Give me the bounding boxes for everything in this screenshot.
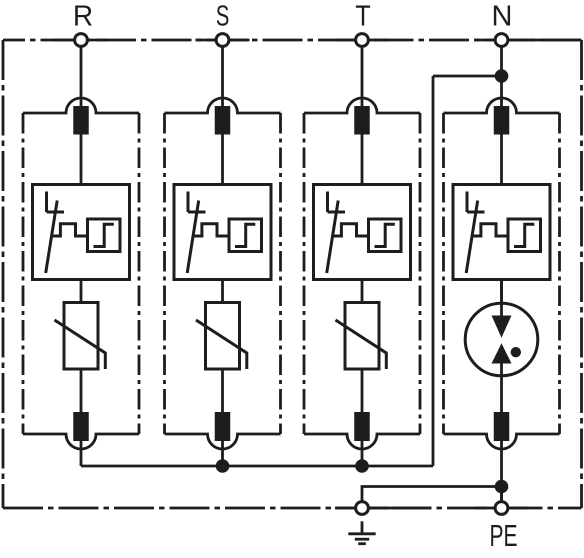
disconnection device with status indicator, leg T	[314, 185, 411, 280]
disconnection device with status indicator, leg S	[174, 185, 271, 280]
wire: lower disconnector down, leg N	[500, 441, 503, 501]
varistor, leg S	[196, 303, 247, 370]
enclosure border bottom (dash-dot)	[3, 507, 582, 510]
thermal disconnector (lower) leg T	[354, 412, 370, 441]
terminal PE (circle on bottom border)	[495, 502, 508, 515]
wire: bottom border solid segment at earth terminal	[335, 507, 389, 510]
disconnection device with status indicator, leg N	[453, 185, 550, 280]
svg-text:PE: PE	[489, 518, 517, 553]
thermal disconnector (upper) leg N	[494, 106, 510, 135]
wire: terminal R down to disconnector	[80, 40, 83, 108]
wire: bottom bus joining R, S, T varistor legs	[81, 465, 433, 468]
protection module boundary R (dash-dot box with plug arches)	[23, 98, 139, 449]
wire: lower disconnector down, leg S	[221, 441, 224, 466]
terminal N (circle on enclosure border)	[495, 34, 508, 47]
node: junction T on bus	[355, 459, 369, 473]
wire: top border solid segment at terminal T	[335, 39, 389, 42]
thermal disconnector (upper) leg S	[215, 106, 231, 135]
svg-text:N: N	[492, 0, 513, 32]
wire: arrester element to lower disconnector, leg R	[80, 369, 83, 414]
varistor, leg R	[55, 303, 106, 370]
protection module boundary T (dash-dot box with plug arches)	[304, 98, 420, 449]
thermal disconnector (upper) leg T	[354, 106, 370, 135]
wire: lower disconnector down, leg R	[80, 441, 83, 466]
wire: indicator box to arrester element, leg S	[221, 280, 224, 303]
svg-text:S: S	[216, 0, 229, 32]
terminal earth (circle on bottom border)	[356, 502, 369, 515]
wire: indicator box to arrester element, leg R	[80, 280, 83, 303]
wire: indicator box to arrester element, leg T	[361, 280, 364, 303]
thermal disconnector (lower) leg N	[494, 412, 510, 441]
wire: disconnector to indicator box, leg N	[500, 135, 503, 185]
terminal R (circle on enclosure border)	[75, 34, 88, 47]
varistor, leg T	[336, 303, 387, 370]
wire: arrester element to lower disconnector, leg T	[361, 369, 364, 414]
node: junction above PE terminal	[495, 480, 509, 494]
wire: bottom border solid segment between earth and PE terminals	[369, 507, 431, 510]
node: junction on N conductor	[495, 69, 509, 83]
wire: top border solid segment at terminal N	[475, 39, 529, 42]
wire: terminal T down to disconnector	[361, 40, 364, 108]
spark gap N-PE (circle with opposing arrows)	[465, 280, 538, 376]
wire: junction down to PE terminal	[500, 487, 503, 502]
terminal S (circle on enclosure border)	[216, 34, 229, 47]
wire: terminal N down to disconnector	[500, 40, 503, 108]
wire: top border solid segment N to right corner	[520, 39, 581, 42]
wire: disconnector to indicator box, leg S	[221, 135, 224, 185]
svg-text:R: R	[73, 0, 93, 32]
enclosure border left (dash-dot)	[2, 40, 5, 508]
terminal T (circle on enclosure border)	[356, 34, 369, 47]
wire: disconnector to indicator box, leg R	[80, 135, 83, 185]
wire: lower disconnector down, leg T	[361, 441, 364, 466]
node: junction S on bus	[216, 459, 230, 473]
wire: junction to earth terminal branch	[362, 487, 502, 502]
wire: indicator box to arrester element, leg N	[500, 280, 503, 303]
wire: bus return riser to N	[432, 76, 435, 466]
wire: top border solid segment at terminal S	[196, 39, 250, 42]
wire: terminal S down to disconnector	[221, 40, 224, 108]
enclosure border top (dash-dot)	[3, 39, 582, 42]
ground symbol below earth terminal	[348, 521, 375, 543]
wire: arrester element to lower disconnector, leg N	[500, 364, 503, 415]
wire: riser to N junction	[433, 75, 502, 78]
thermal disconnector (lower) leg S	[215, 412, 231, 441]
svg-text:T: T	[355, 0, 371, 32]
thermal disconnector (lower) leg R	[73, 412, 89, 441]
thermal disconnector (upper) leg R	[73, 106, 89, 135]
wire: disconnector to indicator box, leg T	[361, 135, 364, 185]
wire: arrester element to lower disconnector, leg S	[221, 369, 224, 414]
protection module boundary N (dash-dot box with plug arches)	[444, 98, 560, 449]
enclosure border right (dash-dot)	[580, 40, 583, 508]
protection module boundary S (dash-dot box with plug arches)	[165, 98, 281, 449]
wire: bottom border solid segment at PE terminal	[475, 507, 529, 510]
disconnection device with status indicator, leg R	[33, 185, 130, 280]
wire: top border solid segment at terminal R	[54, 39, 108, 42]
